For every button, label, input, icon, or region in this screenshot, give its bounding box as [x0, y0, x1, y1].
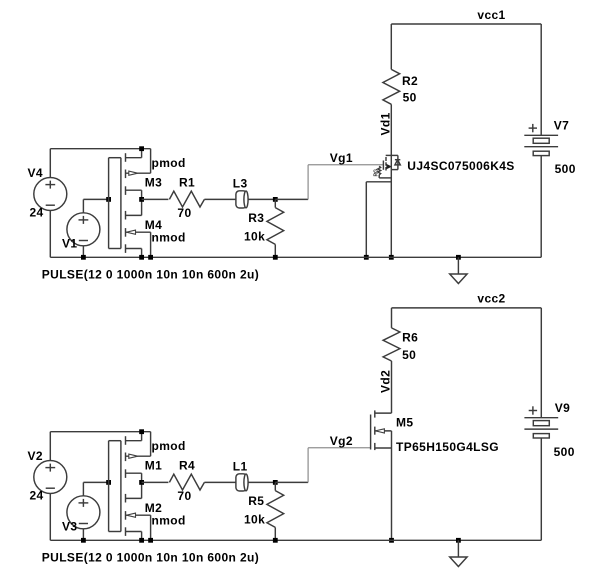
junction nmos bulk on ground rail [148, 255, 153, 260]
pmos transistor M1 pmod [120, 441, 122, 532]
resistor R6 50 [383, 328, 400, 361]
svg-text:R5: R5 [248, 494, 264, 508]
svg-text:V4: V4 [28, 166, 43, 180]
svg-text:R3: R3 [248, 211, 264, 225]
svg-text:70: 70 [177, 206, 191, 220]
transistor U1 UJ4SC075006K4S SiC FET [386, 154, 398, 156]
svg-text:Vd1: Vd1 [378, 112, 392, 135]
svg-text:Vd2: Vd2 [378, 370, 392, 393]
wire gate Vg2 to M5 [308, 447, 371, 449]
svg-text:Vg1: Vg1 [330, 151, 353, 165]
wire V2 minus to ground rail [49, 494, 51, 541]
resistor R4 70 [169, 474, 204, 490]
svg-text:Vg2: Vg2 [330, 434, 353, 448]
junction M5 source on ground rail [389, 538, 394, 543]
svg-text:vcc1: vcc1 [477, 8, 505, 22]
svg-text:M5: M5 [396, 416, 413, 430]
svg-text:PULSE(12 0 1000n 10n 10n 600n: PULSE(12 0 1000n 10n 10n 600n 2u) [42, 268, 259, 282]
junction output node [139, 480, 144, 485]
svg-text:pmod: pmod [152, 439, 186, 453]
wire V3 plus to gate node [82, 482, 84, 495]
voltage source V4 24V [34, 178, 67, 211]
wire node Vd1 R2 to Q1 drain [390, 104, 392, 155]
junction output node [139, 197, 144, 202]
wire output to R [142, 481, 169, 483]
svg-text:M3: M3 [145, 176, 162, 190]
wire vcc2 to R6 [391, 308, 393, 328]
wire vcc2 top rail [392, 307, 542, 309]
wire node Vg1 [275, 198, 308, 200]
svg-text:L3: L3 [233, 177, 248, 191]
voltage source V7 500V [540, 24, 542, 135]
junction ground tap [456, 255, 461, 260]
voltage source V1 pulse [67, 213, 100, 246]
svg-text:TP65H150G4LSG: TP65H150G4LSG [396, 440, 499, 454]
nmos transistor M4 nmod [125, 211, 127, 220]
inductor L1 [236, 481, 249, 483]
svg-text:V3: V3 [62, 520, 77, 534]
svg-text:70: 70 [177, 489, 191, 503]
junction pulldown node [273, 480, 278, 485]
pmos transistor M3 pmod [120, 158, 122, 249]
nmos transistor M2 nmod [125, 494, 127, 503]
voltage source V3 pulse [67, 496, 100, 529]
svg-text:50: 50 [402, 348, 416, 362]
svg-text:R4: R4 [179, 459, 195, 473]
junction V1 minus on ground rail [81, 255, 86, 260]
junction gate node [106, 197, 111, 202]
resistor R2 50 [383, 69, 400, 104]
wire output to R [142, 198, 169, 200]
svg-text:R6: R6 [402, 331, 418, 345]
wire ground rail circuit 2 [50, 539, 541, 541]
wire vcc1 top rail [391, 23, 541, 25]
junction nmos bulk on ground rail [148, 538, 153, 543]
svg-text:V9: V9 [555, 401, 570, 415]
junction R3 bottom on ground rail [273, 255, 278, 260]
svg-text:nmod: nmod [152, 230, 186, 244]
wire V7 minus to ground rail [540, 156, 542, 258]
wire V1 plus to gate node [82, 199, 84, 212]
transistor M5 nmos [370, 415, 372, 450]
junction V3 minus on ground rail [81, 538, 86, 543]
wire V9 minus to ground rail [540, 438, 542, 540]
wire top rail drv2 [50, 431, 150, 433]
svg-text:10k: 10k [244, 513, 265, 527]
wire top rail drv1 [50, 148, 150, 150]
resistor R5 10k [274, 482, 276, 490]
svg-text:500: 500 [555, 162, 576, 176]
wire R to L [204, 481, 236, 483]
svg-text:PULSE(12 0 1000n 10n 10n 600n: PULSE(12 0 1000n 10n 10n 600n 2u) [42, 551, 259, 565]
ground symbol circuit 2 [457, 540, 459, 556]
svg-text:50: 50 [403, 91, 417, 105]
wire gate vertical [108, 441, 110, 532]
svg-text:V2: V2 [28, 449, 43, 463]
svg-text:R2: R2 [402, 74, 418, 88]
svg-text:UJ4SC075006K4S: UJ4SC075006K4S [407, 159, 514, 173]
junction gate node [106, 480, 111, 485]
svg-text:nmod: nmod [152, 513, 186, 527]
junction U1 source on ground rail [389, 255, 394, 260]
wire U1 kelvin source return [366, 181, 391, 183]
svg-text:10k: 10k [244, 230, 265, 244]
resistor R3 10k [274, 199, 276, 207]
wire node Vd2 R6 to M5 drain [391, 361, 393, 413]
wire gate Vg1 to U1 [308, 164, 383, 166]
voltage source V9 500V [540, 308, 542, 418]
ground symbol circuit 1 [457, 257, 459, 273]
svg-text:500: 500 [554, 445, 575, 459]
junction rail / pmos source [139, 429, 144, 434]
wire M5 source to ground rail [391, 448, 393, 540]
svg-text:V1: V1 [62, 237, 77, 251]
junction ground tap circuit 2 [456, 538, 461, 543]
wire V4 minus to ground rail [49, 211, 51, 258]
junction R5 bottom on ground rail [273, 538, 278, 543]
wire L to pulldown node [248, 481, 275, 483]
resistor R1 70 [169, 191, 204, 207]
junction nmos source on ground rail [139, 255, 144, 260]
wire L to pulldown node [248, 198, 275, 200]
inductor L3 [236, 198, 249, 200]
svg-text:R1: R1 [179, 176, 195, 190]
junction rail / pmos source [139, 146, 144, 151]
wire V1 minus to ground rail [82, 246, 84, 257]
wire R to L [204, 198, 236, 200]
wire U1 source to ground rail [390, 170, 392, 258]
svg-text:M1: M1 [145, 459, 162, 473]
svg-text:24: 24 [30, 489, 44, 503]
svg-text:pmod: pmod [152, 156, 186, 170]
junction kelvin on ground rail [364, 255, 369, 260]
svg-text:vcc2: vcc2 [477, 292, 505, 306]
junction nmos source on ground rail [139, 538, 144, 543]
svg-text:L1: L1 [233, 460, 248, 474]
wire vcc1 to R2 [390, 24, 392, 69]
wire V3 minus to ground rail [82, 529, 84, 541]
wire node Vg2 [275, 481, 308, 483]
svg-text:24: 24 [30, 206, 44, 220]
voltage source V2 24V [34, 461, 67, 494]
wire gate vertical [108, 158, 110, 249]
wire ground rail circuit 1 [50, 256, 541, 258]
junction pulldown node [273, 197, 278, 202]
svg-text:V7: V7 [554, 119, 569, 133]
